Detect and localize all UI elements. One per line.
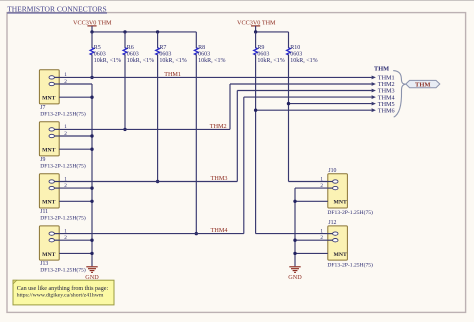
wire J11 pin2 to GND column: [59, 187, 92, 189]
pin 1 of J13: [54, 233, 59, 235]
junction right GND-J12 pin2: [293, 239, 296, 242]
harness entry arrow THM6: [372, 108, 376, 112]
svg-text:MNT: MNT: [334, 252, 347, 258]
junction GND-J13 pin2: [90, 239, 93, 242]
pin 2 of J9: [54, 135, 59, 137]
wire J9 MNT to GND column: [59, 148, 92, 150]
svg-text:THM: THM: [374, 65, 389, 72]
svg-text:10kR, <1%: 10kR, <1%: [94, 58, 121, 64]
wire R9 to THM6/J12: [255, 54, 257, 233]
junction GND-J9 pin2: [90, 134, 93, 137]
wire J12 MNT to right GND column: [295, 252, 328, 254]
wire J7 pin2 to GND column: [59, 83, 92, 85]
pin 1 of J10: [328, 181, 333, 183]
svg-text:R5: R5: [94, 45, 101, 51]
svg-text:0603: 0603: [159, 51, 171, 57]
wire left VCC rail: [92, 31, 196, 33]
svg-text:10kR, <1%: 10kR, <1%: [159, 58, 186, 64]
wire net THM2: [59, 128, 230, 130]
svg-text:THM3: THM3: [211, 175, 228, 182]
svg-text:R6: R6: [127, 45, 134, 51]
wire R10 to THM5/J10: [288, 54, 290, 181]
note box digikey: [13, 280, 114, 305]
svg-text:https://www.digikey.ca/short/z: https://www.digikey.ca/short/z41hwm: [17, 292, 104, 298]
harness entry arrow THM5: [372, 102, 376, 106]
resistor R10: [288, 32, 290, 48]
wire net THM6: [256, 109, 372, 111]
svg-text:0603: 0603: [290, 51, 302, 57]
svg-text:DF13-2P-1.25H(75): DF13-2P-1.25H(75): [40, 267, 86, 274]
svg-text:10kR, <1%: 10kR, <1%: [198, 58, 225, 64]
svg-text:J10: J10: [328, 168, 336, 174]
svg-text:DF13-2P-1.25H(75): DF13-2P-1.25H(75): [40, 110, 86, 117]
wire left GND column: [91, 84, 93, 266]
resistor R7: [157, 32, 159, 48]
junction R7-THM3: [156, 180, 159, 183]
connector J12 DF13-2P-1.25H(75): [328, 226, 348, 260]
svg-text:10kR, <1%: 10kR, <1%: [257, 58, 284, 64]
svg-text:MNT: MNT: [42, 148, 55, 154]
wire right GND column: [294, 188, 296, 266]
wire R9 corner to J12 pin1: [256, 233, 328, 235]
junction GND-J11 pin2: [90, 186, 93, 189]
pin 1 of J7: [54, 76, 59, 78]
junction rail-R6: [123, 30, 126, 33]
svg-text:DF13-2P-1.25H(75): DF13-2P-1.25H(75): [327, 261, 373, 268]
wire R7 to THM3: [157, 54, 159, 181]
svg-text:THM2: THM2: [210, 123, 227, 130]
wire J10 MNT to right GND column: [295, 200, 328, 202]
connector J11 DF13-2P-1.25H(75): [39, 174, 59, 208]
wire right VCC rail: [256, 31, 289, 33]
svg-text:DF13-2P-1.25H(75): DF13-2P-1.25H(75): [40, 214, 86, 221]
wire net THM5: [289, 103, 372, 105]
svg-text:R9: R9: [257, 45, 264, 51]
svg-text:J9: J9: [40, 157, 45, 163]
svg-text:MNT: MNT: [334, 200, 347, 206]
harness bundle brace: [393, 71, 406, 118]
harness entry arrow THM1: [372, 76, 376, 80]
svg-text:R7: R7: [159, 45, 166, 51]
connector J9 DF13-2P-1.25H(75): [39, 122, 59, 156]
svg-text:J7: J7: [40, 105, 45, 111]
svg-text:THM4: THM4: [211, 227, 228, 234]
wire J11 MNT to GND column: [59, 200, 92, 202]
svg-text:J11: J11: [40, 209, 48, 215]
harness entry arrow THM4: [372, 95, 376, 99]
svg-text:J12: J12: [328, 220, 336, 226]
wire J13 pin2 to GND column: [59, 239, 92, 241]
junction R9-THM6: [254, 109, 257, 112]
pin 2 of J10: [328, 187, 333, 189]
wire R5 to THM1: [91, 54, 93, 77]
wire J9 pin2 to GND column: [59, 135, 92, 137]
port THM: [406, 80, 440, 87]
wire J7 MNT to GND column: [59, 96, 92, 98]
svg-text:GND: GND: [288, 274, 302, 281]
svg-text:R8: R8: [198, 45, 205, 51]
svg-text:10kR, <1%: 10kR, <1%: [127, 58, 154, 64]
svg-text:THERMISTOR CONNECTORS: THERMISTOR CONNECTORS: [7, 5, 107, 14]
wire R8 to THM4: [195, 54, 197, 233]
svg-text:THM6: THM6: [378, 107, 395, 114]
junction R8-THM4: [195, 232, 198, 235]
resistor R5: [91, 32, 93, 48]
connector J13 DF13-2P-1.25H(75): [39, 226, 59, 260]
svg-text:MNT: MNT: [42, 200, 55, 206]
junction rail-R7: [156, 30, 159, 33]
ground left GND: [86, 266, 97, 268]
junction right GND-J10 MNT: [293, 200, 296, 203]
resistor R9: [255, 32, 257, 48]
pin 1 of J12: [328, 233, 333, 235]
wire J12 pin2 to right GND column: [295, 239, 328, 241]
harness entry arrow THM2: [372, 82, 376, 86]
pin 2 of J7: [54, 83, 59, 85]
pin 1 of J11: [54, 181, 59, 183]
junction right GND-J12 MNT: [293, 252, 296, 255]
svg-text:0603: 0603: [127, 51, 139, 57]
wire net THM3: [59, 181, 237, 183]
junction R10-THM5: [287, 102, 290, 105]
connector J7 DF13-2P-1.25H(75): [39, 70, 59, 104]
wire J13 MNT to GND column: [59, 252, 92, 254]
ground right GND: [289, 266, 300, 268]
svg-text:Can use like anything from thi: Can use like anything from this page:: [17, 285, 109, 292]
svg-text:THM1: THM1: [164, 71, 181, 78]
svg-text:THM: THM: [415, 81, 431, 88]
svg-text:DF13-2P-1.25H(75): DF13-2P-1.25H(75): [327, 209, 373, 216]
junction R6-THM2: [123, 128, 126, 131]
junction rail-R9: [254, 30, 257, 33]
svg-text:R10: R10: [290, 45, 300, 51]
svg-text:0603: 0603: [94, 51, 106, 57]
wire net THM4: [59, 233, 244, 235]
junction rail-R5: [90, 30, 93, 33]
svg-text:MNT: MNT: [42, 252, 55, 258]
svg-text:10kR, <1%: 10kR, <1%: [290, 58, 317, 64]
connector J10 DF13-2P-1.25H(75): [328, 174, 348, 208]
wire net THM1: [59, 76, 371, 78]
pin 2 of J13: [54, 239, 59, 241]
resistor R8: [195, 32, 197, 48]
pin 2 of J11: [54, 187, 59, 189]
pin 2 of J12: [328, 239, 333, 241]
junction GND-J11 MNT: [90, 200, 93, 203]
svg-text:0603: 0603: [257, 51, 269, 57]
junction GND-J13 MNT: [90, 252, 93, 255]
junction GND-J9 MNT: [90, 148, 93, 151]
resistor R6: [124, 32, 126, 48]
svg-text:0603: 0603: [198, 51, 210, 57]
svg-text:J13: J13: [40, 261, 48, 267]
harness entry arrow THM3: [372, 89, 376, 93]
svg-text:DF13-2P-1.25H(75): DF13-2P-1.25H(75): [40, 162, 86, 169]
svg-text:MNT: MNT: [42, 96, 55, 102]
junction GND-J7 MNT: [90, 96, 93, 99]
wire R10 corner to J10 pin1: [289, 181, 328, 183]
junction R5-THM1: [90, 76, 93, 79]
wire R6 to THM2: [124, 54, 126, 129]
wire J10 pin2 to right GND column: [295, 187, 328, 189]
pin 1 of J9: [54, 128, 59, 130]
